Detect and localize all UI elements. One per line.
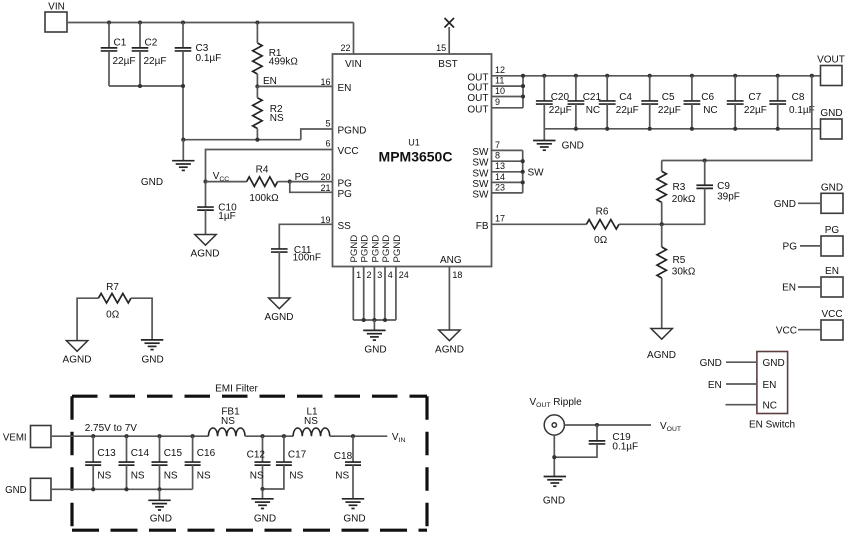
net SW label [528,168,545,179]
node OUT rail C7 [733,74,737,78]
terminal GND emi [5,478,51,500]
connector EN Switch body [749,352,795,431]
wire PGND pin 24 stub [395,267,397,321]
svg-text:20: 20 [320,172,330,182]
svg-text:C20: C20 [551,92,570,103]
test point VOUT Ripple [530,397,583,435]
svg-text:C14: C14 [131,448,150,459]
wire pin 17 FB [492,223,587,225]
svg-text:C9: C9 [717,181,730,192]
ground input GND [141,140,195,188]
svg-text:GND: GND [343,513,365,524]
svg-text:GND: GND [5,485,27,496]
wire EN switch EN [708,380,777,391]
node C18 top [351,434,355,438]
pin 15 BST label [436,43,458,70]
svg-text:C6: C6 [701,92,714,103]
svg-text:8: 8 [495,151,500,161]
svg-text:23: 23 [495,182,505,192]
node PG [288,172,310,184]
capacitor C6 NC [684,76,718,129]
svg-text:NC: NC [763,400,777,411]
node OUT bus 10 [521,94,525,98]
capacitor C9 39pF [662,161,740,225]
svg-text:OUT: OUT [467,93,488,104]
node EMI gnd rail x159 [157,487,161,491]
svg-text:GND: GND [821,182,843,193]
wire pin 8 stub [492,160,523,162]
node VEMI rail C13 [91,434,95,438]
svg-text:7: 7 [495,140,500,150]
wire R4 to PG node [278,181,290,183]
terminal VIN [45,2,67,33]
svg-text:22µF: 22µF [113,56,136,67]
pin 5 PGND label [325,119,366,137]
node C12 bottom [260,487,264,491]
wire EMI ground rail [51,488,193,490]
svg-text:GND: GND [820,108,842,119]
node PGND 4 [383,318,387,322]
node C2 bottom junction [138,84,142,88]
svg-text:PGND: PGND [349,235,360,263]
svg-text:NS: NS [289,470,303,481]
svg-text:PG: PG [825,225,840,236]
ground output GND [533,129,584,152]
node gnd rail R2 [255,138,259,142]
svg-text:20kΩ: 20kΩ [672,194,696,205]
pin 14 SW label [472,172,505,190]
svg-text:OUT: OUT [467,83,488,94]
svg-text:6: 6 [325,139,330,149]
capacitor C10 1uF [197,182,237,235]
node VIN-C1 junction [107,20,111,24]
svg-text:22µF: 22µF [744,105,767,116]
svg-text:C5: C5 [662,92,675,103]
terminal GND out [820,108,842,139]
svg-text:VOUT: VOUT [817,55,845,66]
svg-text:24: 24 [399,270,409,280]
node VEMI rail C14 [124,434,128,438]
svg-text:17: 17 [495,214,505,224]
svg-text:C2: C2 [145,38,158,49]
wire L1 to VIN [330,432,406,444]
svg-text:NS: NS [335,470,349,481]
resistor R7 0ohm [77,282,152,340]
svg-text:C12: C12 [247,450,266,461]
svg-text:SW: SW [472,168,489,179]
capacitor C12 NS [247,436,271,489]
node gnd rail C6 [690,127,694,131]
svg-text:EN: EN [263,76,277,87]
svg-text:9: 9 [495,97,500,107]
svg-text:SW: SW [472,147,489,158]
svg-text:PG: PG [338,189,353,200]
svg-text:NS: NS [131,470,145,481]
svg-text:PG: PG [338,178,353,189]
svg-text:0Ω: 0Ω [594,235,608,246]
terminal PG right [783,225,843,256]
resistor R2 NS [253,86,284,139]
svg-text:AGND: AGND [435,344,464,355]
wire EN to pin16 [257,85,332,87]
ground AGND R5 [647,329,676,362]
wire VIN top rail [67,22,354,24]
svg-text:GND: GND [763,358,785,369]
svg-text:NS: NS [221,416,235,427]
svg-text:C18: C18 [334,451,353,462]
svg-text:22µF: 22µF [144,56,167,67]
ground AGND pin18 [435,330,464,355]
svg-text:C13: C13 [97,448,116,459]
wire testpoint ground [553,435,555,476]
node gnd rail C7 [733,127,737,131]
wire output ground rail [544,128,820,130]
svg-text:GND: GND [543,496,565,507]
node EMI gnd rail x93 [91,487,95,491]
svg-text:R6: R6 [596,207,609,218]
wire EN switch GND [700,358,785,369]
svg-text:13: 13 [495,161,505,171]
ground PGND GND [363,320,386,355]
wire pin 7 stub [492,149,523,151]
node VIN-C3 junction [181,20,185,24]
pin 18 ANG label [440,255,462,280]
wire PG to pin 20 [290,181,333,183]
capacitor C16 NS [185,436,216,489]
svg-text:R5: R5 [673,255,686,266]
svg-text:10: 10 [495,86,505,96]
node OUT rail C21 [574,74,578,78]
wire PGND pin 3 stub [373,267,375,321]
svg-text:11: 11 [495,76,504,86]
pin 19 SS label [320,215,351,232]
ground GND R7 [141,340,164,366]
ground GND C18 [342,499,366,525]
terminal VCC right [776,309,843,340]
svg-text:FB: FB [476,221,489,232]
node C17 top [282,434,286,438]
svg-text:NS: NS [197,470,211,481]
svg-text:C15: C15 [164,448,183,459]
ground GND C12 [251,489,276,524]
svg-text:C1: C1 [114,38,127,49]
no-connect X on BST [445,18,455,28]
pin 8 SW label [472,151,500,169]
node OUT rail C6 [690,74,694,78]
node OUT rail C20 [542,74,546,78]
wire PGND pin 2 stub [363,267,365,321]
pin 1 PGND label [349,235,361,280]
op-amp U1 MPM3650C body [333,54,492,267]
node OUT bus 11 [521,84,525,88]
capacitor C17 NS [263,436,307,489]
wire pin5 step [301,129,333,140]
pin 3 PGND label [370,235,382,280]
svg-text:PGND: PGND [370,235,381,263]
wire OUT bus [522,76,524,108]
node C19 bottom [552,455,556,459]
pin 16 EN label [320,77,351,94]
node C19 top [595,423,599,427]
node VOUT feed [810,74,814,78]
wire PGND pin 4 stub [384,267,386,321]
svg-text:GND: GND [700,358,722,369]
node EMI gnd rail x126 [124,487,128,491]
svg-text:0.1µF: 0.1µF [612,442,638,453]
svg-text:30kΩ: 30kΩ [672,267,696,278]
svg-text:100nF: 100nF [293,253,321,264]
capacitor C19 0.1uF [554,425,638,457]
svg-text:PGND: PGND [381,235,392,263]
svg-text:C4: C4 [619,92,632,103]
svg-text:EN: EN [825,266,839,277]
terminal VEMI [3,426,51,448]
wire pin 22 drop [353,23,355,55]
wire VCC to R4 [206,181,247,183]
svg-text:SS: SS [338,221,352,232]
svg-text:SW: SW [472,189,489,200]
node C9 top [703,158,707,162]
svg-text:R7: R7 [106,282,119,293]
resistor R1 499k [253,23,299,87]
svg-text:14: 14 [495,172,505,182]
wire PG to pin 21 [290,182,333,193]
wire R6 to FB node [619,223,662,225]
resistor R4 100k [247,164,279,204]
resistor R5 30k [657,224,696,328]
svg-text:18: 18 [452,270,462,280]
ground AGND C11 [265,298,294,323]
pin 23 SW label [472,182,505,200]
wire C1-C2 bottom rail [109,85,183,87]
node OUT rail C5 [648,74,652,78]
capacitor C13 NS [85,436,116,489]
svg-text:PGND: PGND [338,126,367,137]
svg-text:VCC: VCC [776,325,797,336]
node C12 top [260,434,264,438]
svg-text:AGND: AGND [265,312,294,323]
svg-text:3: 3 [377,270,382,280]
node gnd rail left [181,138,185,142]
svg-text:EN: EN [782,283,796,294]
svg-text:GND: GND [364,344,386,355]
wire VOUT feed down [662,76,812,161]
wire PGND pin 1 stub [352,267,354,321]
node OUT bus top [521,74,525,78]
wire pin 14 stub [492,181,523,183]
svg-text:C21: C21 [583,92,602,103]
terminal VOUT [817,55,845,86]
pin 11 OUT label [467,76,504,94]
svg-text:NS: NS [250,470,264,481]
pin 10 OUT label [467,86,505,104]
svg-text:1µF: 1µF [218,211,235,222]
svg-text:AGND: AGND [63,355,92,366]
svg-text:2.75V to 7V: 2.75V to 7V [85,423,138,434]
node PGND 3 [372,318,376,322]
svg-text:21: 21 [320,183,330,193]
wire pin 11 stub [492,85,524,87]
pin 9 OUT label [467,97,500,115]
pin 22 VIN label [340,43,361,70]
wire EN switch NC [726,400,777,411]
net 2.75V to 7V [85,423,138,434]
svg-text:VIN: VIN [48,2,65,13]
resistor R6 0ohm [586,207,619,246]
svg-text:VEMI: VEMI [3,433,27,444]
pin 4 PGND label [381,235,393,280]
svg-text:39pF: 39pF [717,192,740,203]
svg-text:GND: GND [562,141,584,152]
svg-text:NS: NS [164,470,178,481]
wire pin 23 stub [492,192,523,194]
svg-text:5: 5 [325,119,330,129]
svg-text:C8: C8 [792,92,805,103]
node EN divider [255,76,277,89]
svg-text:NC: NC [703,105,717,116]
svg-text:R4: R4 [256,164,269,175]
wire FB1 to L1 [245,435,293,437]
pin 7 SW label [472,140,500,158]
capacitor C2 [132,23,167,87]
svg-text:AGND: AGND [191,249,220,260]
svg-text:MPM3650C: MPM3650C [379,149,453,165]
wire input ground rail [183,139,301,141]
svg-text:PGND: PGND [360,235,371,263]
svg-text:GND: GND [254,513,276,524]
wire pin 13 stub [492,171,523,173]
svg-text:PG: PG [783,242,798,253]
capacitor C5 22µF [641,76,681,129]
svg-text:AGND: AGND [647,350,676,361]
svg-text:PGND: PGND [392,235,403,263]
svg-text:R3: R3 [673,182,686,193]
capacitor C21 NC [568,76,602,129]
capacitor C1 [101,23,136,87]
svg-text:19: 19 [320,215,330,225]
ground EMI GND [148,489,172,524]
svg-text:C17: C17 [288,450,307,461]
resistor R3 20k [657,161,696,225]
terminal GND right [774,182,843,213]
capacitor C15 NS [152,436,183,489]
node PGND 2 [362,318,366,322]
capacitor C20 22µF [536,76,572,129]
svg-text:EN: EN [763,380,777,391]
svg-text:GND: GND [141,355,163,366]
EMI filter dashed box [72,383,427,530]
svg-text:OUT: OUT [467,104,488,115]
wire pin 18 ANG [448,267,450,331]
wire pin 10 stub [492,96,524,98]
wire pin 19 SS [279,224,332,249]
node OUT rail C4 [605,74,609,78]
svg-text:22µF: 22µF [616,105,639,116]
svg-text:0.1µF: 0.1µF [789,105,815,116]
pin 12 OUT label [467,65,505,83]
capacitor C8 0.1µF [769,76,814,129]
svg-text:NS: NS [270,113,284,124]
svg-text:GND: GND [774,199,796,210]
inductor L1 NS [293,406,330,436]
wire VOUT ripple [564,421,681,433]
node VEMI rail C15 [157,434,161,438]
node gnd rail C5 [648,127,652,131]
node OUT rail C8 [776,74,780,78]
wire pin 9 stub [492,107,524,109]
svg-text:C16: C16 [197,448,216,459]
wire VEMI rail [51,435,208,437]
wire OUT rail [492,75,821,77]
wire PGND rail [353,319,396,321]
svg-text:15: 15 [436,43,446,53]
svg-text:U1: U1 [408,138,420,148]
svg-text:0Ω: 0Ω [106,310,120,321]
node gnd rail C4 [605,127,609,131]
node VEMI rail C16 [191,434,195,438]
svg-text:100kΩ: 100kΩ [249,193,279,204]
capacitor C11 100nF [271,245,321,298]
ground AGND R7 [63,341,92,366]
node C3 bottom junction [181,84,185,88]
pin 24 PGND label [392,235,409,280]
terminal EN right [782,266,843,297]
node SW bus 13 [521,170,525,174]
ground AGND C10 [191,235,220,260]
capacitor C7 22µF [727,76,767,129]
ground GND C19 [543,477,566,507]
pin 13 SW label [472,161,505,179]
node gnd rail C8 [776,127,780,131]
svg-text:EN: EN [708,380,722,391]
inductor FB1 NS [208,406,245,436]
node gnd rail C21 [574,127,578,131]
svg-text:0.1µF: 0.1µF [196,53,222,64]
svg-text:SW: SW [472,158,489,169]
node FB divider [660,222,664,226]
wire SW bus [522,150,524,193]
svg-text:22: 22 [340,43,350,53]
svg-text:ANG: ANG [440,255,462,266]
svg-text:22µF: 22µF [658,105,681,116]
pin 6 VCC label [325,139,358,158]
svg-text:NC: NC [586,105,600,116]
svg-text:16: 16 [320,77,330,87]
svg-text:SW: SW [528,168,545,179]
node SW bus 8 [521,159,525,163]
svg-text:VIN: VIN [345,59,362,70]
capacitor C18 NS [334,436,361,499]
pin 2 PGND label [360,235,372,280]
svg-text:BST: BST [438,59,457,70]
capacitor C4 22µF [599,76,639,129]
svg-text:GND: GND [141,177,163,188]
svg-text:C7: C7 [748,92,761,103]
svg-text:12: 12 [495,65,505,75]
svg-text:NS: NS [304,416,318,427]
svg-text:EN: EN [338,83,352,94]
node VCC [203,171,229,184]
node VIN-C2 junction [138,20,142,24]
svg-text:22µF: 22µF [549,105,572,116]
pin 20 PG label [320,172,352,189]
svg-text:4: 4 [388,270,393,280]
node SW bus 14 [521,180,525,184]
wire pin 15 BST [448,27,450,54]
svg-text:VCC: VCC [338,146,359,157]
svg-text:1: 1 [356,270,361,280]
svg-text:EN Switch: EN Switch [749,419,795,430]
